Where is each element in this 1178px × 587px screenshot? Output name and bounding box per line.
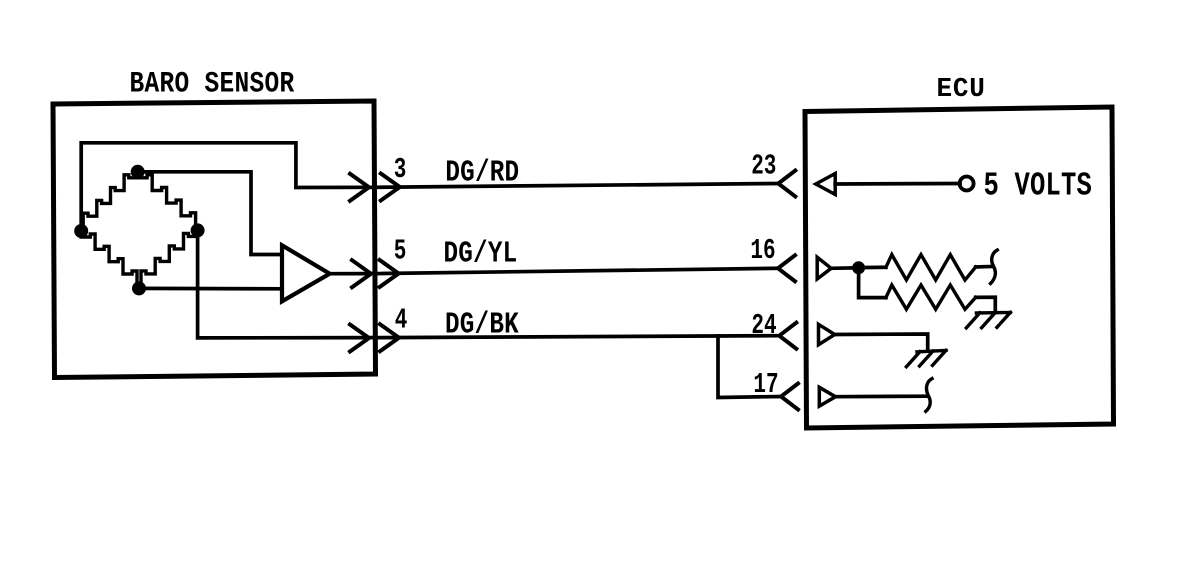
svg-text:BARO SENSOR: BARO SENSOR	[130, 67, 295, 101]
ECU box	[805, 107, 1114, 428]
wire branch down to ECU pin17	[718, 336, 781, 398]
svg-text:24: 24	[751, 310, 776, 342]
wire pin16 to junction	[831, 266, 858, 270]
wire junction down to resistor R-B	[859, 268, 886, 298]
svg-text:3: 3	[394, 154, 407, 186]
pin 17 output triangle	[819, 387, 835, 406]
connector chevron pin 24	[779, 323, 796, 349]
svg-text:5: 5	[394, 236, 407, 268]
svg-text:DG/YL: DG/YL	[444, 237, 518, 271]
resistor bridge bottom-left arm	[81, 231, 139, 288]
curl terminal upper	[991, 250, 998, 284]
resistor R-A (upper)	[886, 255, 976, 280]
connector chevrons pin 4	[350, 324, 399, 351]
wire DG/RD pin3 to ECU pin23	[373, 184, 778, 188]
ground pin24	[906, 350, 946, 366]
junction node	[852, 261, 865, 274]
pin 23 input triangle	[816, 174, 835, 195]
svg-text:16: 16	[750, 235, 775, 267]
wire junction to resistor R-A	[859, 265, 886, 269]
connector chevron pin 17	[781, 384, 798, 410]
wire pin17 to curl terminal	[836, 394, 927, 398]
svg-text:DG/BK: DG/BK	[445, 308, 519, 342]
svg-text:17: 17	[753, 369, 778, 401]
wire R-A to curl terminal	[976, 265, 991, 269]
node bottom of bridge	[132, 281, 146, 295]
svg-text:23: 23	[751, 151, 776, 183]
node left of bridge	[74, 224, 88, 238]
resistor bridge bottom-right arm	[139, 230, 198, 288]
svg-text:DG/RD: DG/RD	[445, 156, 519, 190]
wire right-node down to pin 4	[198, 230, 373, 338]
connector chevron pin 23	[778, 171, 795, 197]
resistor bridge top-left arm	[81, 172, 138, 231]
node right of bridge	[191, 223, 205, 237]
terminal circle 5 volts	[960, 177, 974, 191]
svg-text:4: 4	[395, 305, 408, 337]
op-amp	[282, 245, 330, 301]
wire pin24 to ground	[835, 334, 928, 351]
wire op-amp output to pin 5	[330, 272, 373, 276]
svg-text:5 VOLTS: 5 VOLTS	[984, 166, 1092, 204]
pin 24 output triangle	[819, 324, 835, 344]
connector chevrons pin 5	[352, 260, 399, 287]
wire top-node to op-amp upper input	[138, 172, 282, 255]
curl terminal pin 17	[926, 379, 932, 412]
connector chevron pin 16	[778, 255, 795, 281]
resistor R-B (lower)	[886, 285, 976, 309]
wire DG/YL pin5 to ECU pin16	[373, 268, 778, 273]
ground pin16	[966, 312, 1010, 328]
wire bottom-node to op-amp lower input	[139, 287, 282, 291]
node top of bridge	[131, 165, 145, 179]
connector chevrons pin 3	[350, 174, 400, 201]
resistor bridge top-right arm	[138, 172, 198, 231]
wire pin23 to 5V	[835, 182, 960, 186]
wire left-node up and over to pin 3	[81, 143, 373, 231]
wire DG/BK pin4 to ECU pin24	[373, 336, 779, 338]
pin 16 output triangle	[817, 257, 831, 279]
svg-text:ECU: ECU	[937, 74, 986, 105]
BARO SENSOR box	[53, 101, 376, 378]
wire R-B to ground	[976, 297, 996, 312]
